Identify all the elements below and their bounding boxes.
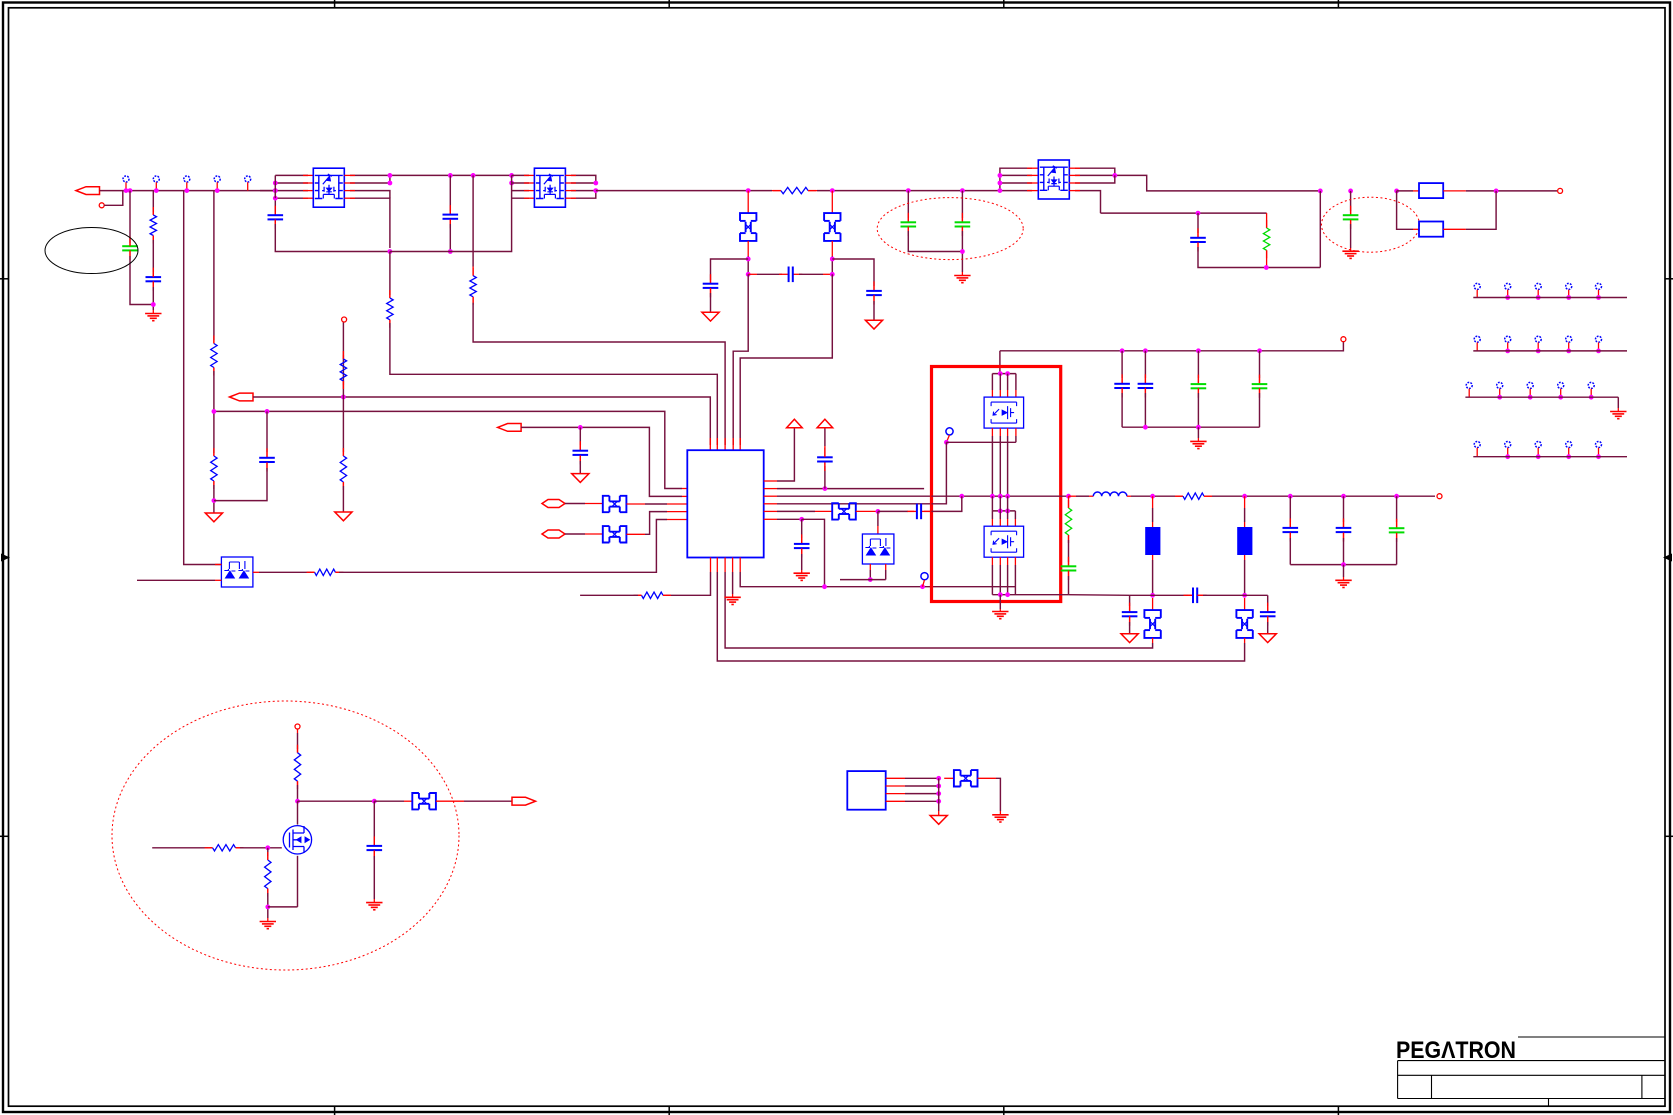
resistor R9 <box>213 453 215 456</box>
capacitor C15 (green) <box>1259 351 1261 378</box>
wire bus drop x184 <box>184 191 222 565</box>
wire R1 branch <box>152 191 154 212</box>
capacitor C22 series <box>1188 594 1193 596</box>
ground G3 (triangle) <box>865 320 882 329</box>
wire opto U3 left pins <box>1000 168 1032 190</box>
wire R12 to C21 <box>1068 540 1070 562</box>
wire U4 bottom pin5 (y586.7) <box>739 558 741 573</box>
wire gate from left <box>152 847 208 849</box>
connector pin row2-3 <box>1535 336 1541 342</box>
branch to C23 <box>1129 595 1131 606</box>
wire FB2 down to IC pin5 <box>740 274 832 445</box>
net oval label N2 <box>542 530 565 538</box>
photocoupler U2 <box>534 168 565 207</box>
wire R9 to junction <box>213 485 215 513</box>
wire Q3 source <box>297 856 299 907</box>
ground G7 <box>1197 438 1199 441</box>
wire y213 rail <box>1101 212 1267 214</box>
wire node C1 branch <box>129 191 131 243</box>
net arrow VIN (left) <box>76 187 100 195</box>
capacitor C20 <box>801 519 803 538</box>
capacitor C16 <box>266 411 268 452</box>
wire U5 pin4 <box>886 800 905 802</box>
wire opto U1 pin1 <box>275 174 308 176</box>
photocoupler U1 <box>313 168 344 207</box>
wire rail down into red box <box>999 351 1001 374</box>
wire VIN bus <box>100 190 276 192</box>
wire FB9 to ground <box>978 777 997 779</box>
wire U4 bottom pin4 to ground <box>732 558 734 573</box>
connector pin row3-4 <box>1558 382 1564 388</box>
wire bus drop x214 <box>213 191 215 340</box>
red dashed ellipse annotation B <box>1322 197 1420 252</box>
capacitor C4 <box>449 175 451 211</box>
wire FB1 to junctions <box>747 241 749 256</box>
wire circle to Q1 pin4 <box>946 441 1016 443</box>
wire rail y427 <box>521 427 682 496</box>
red dashed ellipse annotation A <box>877 198 1023 260</box>
ground G15 (triangle) <box>1259 634 1276 643</box>
wire U5 pin2 <box>886 785 905 787</box>
connector pin row4-4 <box>1566 442 1572 448</box>
wire top bus to opto U2 <box>450 174 511 176</box>
wire pins common <box>938 778 940 811</box>
wire connector row1 <box>1473 297 1627 299</box>
capacitor C24 <box>1267 606 1269 612</box>
wire R13 to output <box>1212 495 1290 497</box>
wire cap-row bottom <box>1122 426 1259 428</box>
wire to FB8 <box>374 800 404 802</box>
wire R16 to junction <box>267 893 269 918</box>
ground G19 (triangle) <box>938 811 940 816</box>
MOSFET block Q1 <box>984 397 1024 428</box>
wire bus to opto U3 <box>817 190 1000 192</box>
ferrite bead FB2 (vertical) <box>831 191 833 214</box>
wire x473 chain <box>472 175 474 266</box>
ferrite bead FB7 (vertical) <box>1244 598 1246 610</box>
capacitor C10 <box>1197 213 1199 233</box>
junction dots on VIN bus <box>124 188 129 193</box>
capacitor C11 (green) <box>1350 191 1352 211</box>
ground G2 (triangle) <box>702 312 719 321</box>
connector pin P1-5 <box>245 176 251 182</box>
ground G18 <box>373 899 375 903</box>
resistor R8 on x343 upper <box>342 355 344 359</box>
wire branch to C7 <box>832 259 874 286</box>
pin circle (blue) <box>921 573 928 580</box>
capacitor C26 <box>1343 496 1345 522</box>
capacitor C13 <box>1144 351 1146 378</box>
resistor R16 <box>267 848 269 856</box>
ferrite bead FB5 <box>832 503 856 519</box>
cap (polarized) CP1 <box>1152 496 1154 508</box>
wire y594.7 out of box <box>1068 594 1129 597</box>
wire connector row3 <box>1465 396 1618 398</box>
net arrow A3 (left) <box>498 424 521 432</box>
resistor R10 <box>311 571 315 573</box>
wire C2 to junction <box>152 287 154 310</box>
IC U4 top pin3 stub <box>724 438 726 450</box>
ferrite bead FB8 <box>412 793 436 809</box>
ground G4 <box>961 272 963 276</box>
capacitor C23 <box>1129 606 1131 612</box>
wire U4 bottom pin1 + resistor R11 <box>710 558 712 573</box>
net circle output (red) <box>1437 494 1442 499</box>
wire main bus y190.6 <box>596 190 772 192</box>
pin stub P1-1 <box>125 182 127 190</box>
wire D2 bottom pins <box>869 564 871 570</box>
branch to C24 <box>1267 595 1269 606</box>
wire D1 out to resistor R10 <box>253 571 259 573</box>
wire U1 right pin1 <box>350 174 450 176</box>
wire N2 to FB4 <box>565 533 585 535</box>
ground G11 <box>801 570 803 573</box>
pin stub P1-2 <box>155 182 157 190</box>
wire x214 chain <box>213 452 215 453</box>
resistor R15 <box>208 847 213 849</box>
power arrow PWR2 <box>817 419 833 428</box>
net circle x343 <box>342 317 347 322</box>
wire bracket top y373.6 <box>992 373 1016 375</box>
capacitor C8 (green) <box>907 191 909 218</box>
wire x390 chain down <box>388 249 393 254</box>
svg-text:PEGΛTRON: PEGΛTRON <box>1396 1037 1516 1064</box>
wire R1 to C2 <box>152 240 154 272</box>
junctions U1 right <box>389 175 391 183</box>
wire FB7 to rail y661 <box>1244 643 1246 648</box>
wire power rail y496 in box <box>932 495 1069 497</box>
wire U1 loop bottom <box>275 224 390 252</box>
wire U3 right pin2 <box>1075 175 1320 191</box>
ground G6 <box>1617 408 1619 412</box>
wire R14 to junction <box>297 785 299 801</box>
connector pin row1-3 <box>1535 283 1541 289</box>
resistor R5 (green) <box>1266 213 1268 228</box>
cap (polarized) CP2 <box>1244 496 1246 508</box>
black ellipse annotation <box>45 228 138 274</box>
capacitor C28 <box>373 840 375 846</box>
wire caps bottom rail <box>1290 564 1396 566</box>
wire to ground G16 <box>1343 565 1345 577</box>
resistor R13 series <box>1175 495 1183 497</box>
connector pin row4-1 <box>1474 442 1480 448</box>
net arrow A2 (left) <box>230 393 254 401</box>
connector pin row2-4 <box>1566 336 1572 342</box>
wire C16 bottom <box>214 468 267 501</box>
red dashed ellipse annotation C <box>112 701 459 970</box>
connector pin row3-1 <box>1466 382 1472 388</box>
wire F1 to junction <box>1443 190 1466 192</box>
wire to ground G7 <box>1197 427 1199 438</box>
ground G9 (triangle) <box>205 513 222 522</box>
wire rail y411 <box>214 411 682 488</box>
capacitor C1 (green) <box>129 237 131 247</box>
IC U4 top pin2 stub <box>716 438 718 450</box>
capacitor C9 (green) <box>961 191 963 218</box>
ground G16 <box>1343 577 1345 580</box>
wire D1 pin1 <box>215 564 221 566</box>
wire junction to FB9 <box>944 777 954 779</box>
capacitor C14 (green) <box>1197 351 1199 378</box>
wire D2 gnd rail <box>840 579 886 581</box>
wire drain node <box>298 800 375 802</box>
capacitor C6 series <box>748 273 757 275</box>
wire D1 pin2 from left <box>137 579 215 581</box>
wires into MOSFET Q1 top <box>991 374 993 390</box>
wire U1 right pin2 <box>350 182 390 184</box>
wire bus to F2 <box>1397 191 1413 229</box>
power arrow PWR1 <box>787 419 803 428</box>
wire U5 pin3 <box>886 793 905 795</box>
net circle (red) top <box>1341 337 1346 342</box>
wires from Q1 bottom <box>991 428 993 436</box>
test point TP1 (red circle) <box>99 203 104 208</box>
wire connector row4 <box>1473 456 1627 458</box>
capacitor C3 on U1 loop <box>274 212 276 215</box>
ground G12 <box>732 594 734 597</box>
wire FB8 to arrow <box>436 800 464 802</box>
wire rail y397 <box>253 397 710 445</box>
capacitor C5 <box>710 280 712 284</box>
wire U2 right pin2 <box>571 182 596 184</box>
wire FB5 to junction <box>856 510 878 512</box>
wire rail y496 to inductor <box>1069 495 1077 497</box>
connector pin row2-2 <box>1505 336 1511 342</box>
wires into MOSFET Q2 top <box>991 496 993 511</box>
net circle (red) <box>1558 188 1563 193</box>
capacitor C17 <box>579 427 581 445</box>
wire U3 right pin3 <box>1075 175 1115 183</box>
wire x1320 drop <box>1319 191 1321 268</box>
junctions opto U1 left <box>273 181 278 186</box>
wire to ground G13 <box>999 595 1001 609</box>
wire bus drop x275 to opto loop <box>274 191 276 212</box>
wire source to junction <box>268 906 298 908</box>
wire U4 right pin2 <box>764 488 777 490</box>
wire Q3 drain <box>297 801 299 824</box>
ground G17 <box>267 918 269 922</box>
wire to R14 <box>297 729 299 733</box>
connector pin row4-2 <box>1505 442 1511 448</box>
connector pin row1-4 <box>1566 283 1572 289</box>
capacitor C27 (green) <box>1396 496 1398 522</box>
net oval label N1 <box>542 500 565 508</box>
ferrite bead FB9 <box>954 770 978 786</box>
fuse F1 (blue box) <box>1419 183 1443 198</box>
wire U1 right pin3 <box>350 191 390 199</box>
wire C1 bottom to GND net <box>130 256 153 305</box>
connector pin row4-3 <box>1535 442 1541 448</box>
wire F2 to junction <box>1443 228 1466 230</box>
connector pin P1-1 <box>123 176 129 182</box>
wire C21 to bracket <box>1068 576 1070 595</box>
resistor R14 <box>297 749 299 753</box>
capacitor C25 <box>1289 496 1291 522</box>
wire R2 to rail y374 <box>390 323 717 445</box>
wire U4 right pin4 <box>764 503 777 505</box>
net circle Q3 drain top (red) <box>295 724 300 729</box>
ferrite bead FB4 <box>603 526 627 542</box>
wire U5 pin1 <box>886 777 905 779</box>
resistor R1 <box>152 212 154 215</box>
ferrite bead FB3 <box>603 496 627 512</box>
connector pin P1-2 <box>153 176 159 182</box>
diode pack D1 <box>221 557 253 587</box>
IC U4 (controller) <box>687 450 763 557</box>
wire TVS D2 branch <box>877 511 879 526</box>
connector pin row3-5 <box>1588 382 1594 388</box>
wire U4 right pin3 (long to inductor) <box>764 495 777 497</box>
resistor R4 series <box>772 190 781 192</box>
photocoupler U3 <box>1038 160 1069 199</box>
wire opto left vertical <box>274 175 276 198</box>
capacitor C2 <box>152 268 154 278</box>
pin stub P1-3 <box>186 182 188 190</box>
connector pin row4-5 <box>1596 442 1602 448</box>
wire R3 to rail y342 <box>473 303 725 445</box>
inductor L1 <box>1093 492 1127 496</box>
wire U3 right pin4 <box>1075 191 1101 214</box>
ferrite bead FB6 (vertical) <box>1152 598 1154 610</box>
connector pin row1-5 <box>1596 283 1602 289</box>
pin stub P1-4 <box>216 182 218 190</box>
wire branch to C5 <box>711 259 749 280</box>
ground G8 (triangle) <box>335 512 352 521</box>
wire vcc rail y350.8 <box>1000 342 1344 351</box>
MOSFET Q3 (circle) <box>283 826 311 854</box>
wire y511 entry to rail <box>932 496 962 511</box>
connector pin row2-1 <box>1474 336 1480 342</box>
ground G20 <box>999 811 1001 815</box>
ground G14 (triangle) <box>1121 634 1138 643</box>
wire loop bottom to opto U2 <box>390 175 512 251</box>
highlight rectangle (thick red) <box>932 367 1061 602</box>
wire opto U1 pin2 <box>275 182 308 184</box>
wire U1 right pin4 <box>350 198 390 248</box>
wire FB3 to IC <box>626 503 645 505</box>
wire FB4 to IC pin <box>626 533 645 535</box>
wire opto U1 pin4 <box>275 197 308 199</box>
wire x343 down <box>342 397 344 452</box>
wire drain node to C28 <box>373 801 375 840</box>
wire output rail <box>1290 495 1435 497</box>
connector pin row1-2 <box>1505 283 1511 289</box>
resistor R7 <box>342 452 344 456</box>
wire C28 to ground <box>373 856 375 899</box>
wire right bus junctions <box>1318 189 1323 194</box>
wire x343 top <box>342 322 344 397</box>
ferrite bead FB1 (vertical) <box>747 191 749 214</box>
capacitor C21 (green) <box>1068 562 1070 566</box>
wire U4 bottom pin2 (rail y661) <box>716 558 718 573</box>
capacitor C18 on PWR2 <box>824 466 826 489</box>
resistor R3 <box>472 267 474 276</box>
wire connector row2 <box>1473 350 1627 352</box>
pin stub P1-5 <box>247 182 249 190</box>
ground G5 <box>1350 248 1352 251</box>
wire opto U2 pin wires <box>512 182 529 184</box>
fuse F2 (blue box) <box>1419 222 1443 237</box>
wires from Q2 bottom <box>991 557 993 565</box>
wire U2 right pin4 <box>571 191 596 199</box>
wire U4 right pin6 <box>764 518 777 520</box>
wire U3 right pin1 <box>1075 168 1115 175</box>
wire FB1 down to IC pin4 <box>733 274 748 445</box>
wire C7 to ground <box>873 301 875 320</box>
capacitor C19 series <box>878 510 908 512</box>
wire U2 right pin1 <box>571 175 596 183</box>
wire U4 bottom pin3 (rail y648) <box>724 558 726 573</box>
connector pin row2-5 <box>1596 336 1602 342</box>
connector pin P1-3 <box>184 176 190 182</box>
title block lines <box>1398 1037 1665 1106</box>
capacitor C12 <box>1121 351 1123 378</box>
wire row3 to ground <box>1617 397 1619 408</box>
wire opto U1 pin3 <box>260 190 308 192</box>
ground G13 <box>999 609 1001 612</box>
pin circle Q1 gate (blue) <box>946 428 953 435</box>
resistor R12 (green) <box>1068 496 1070 508</box>
IC U5 (regulator) <box>847 771 885 810</box>
ground G1 <box>152 310 154 314</box>
wire bracket y594.7 <box>992 594 1068 596</box>
wire bracket y510.9 <box>992 510 1015 512</box>
resistor R2 <box>389 295 391 298</box>
connector pin P1-4 <box>214 176 220 182</box>
wire TP1 to bus <box>104 191 123 206</box>
wire U2 right pin3 <box>571 190 596 192</box>
MOSFET block Q2 <box>984 526 1024 557</box>
wire U4 right pin5 to FB5 <box>764 510 777 512</box>
wire R15 to gate <box>240 847 282 849</box>
wire R10 to IC pin (long) <box>339 520 667 573</box>
net arrow A4 (right) <box>512 797 536 805</box>
connector pin row1-1 <box>1474 283 1480 289</box>
wire N1 to FB3 <box>565 503 585 505</box>
ground G10 (triangle) <box>572 474 589 483</box>
resistor R17 <box>213 340 215 344</box>
wire L1 to junction <box>1127 495 1131 497</box>
wire gate drop to y503.8 <box>932 442 947 504</box>
wire C4 bottom <box>449 224 451 252</box>
wire bus to F1 <box>1397 190 1413 192</box>
wire R7 to ground <box>342 486 344 512</box>
wire y595.3 rail <box>1130 594 1188 596</box>
connector pin row3-3 <box>1527 382 1533 388</box>
connector pin row3-2 <box>1497 382 1503 388</box>
capacitor C7 <box>873 286 875 291</box>
wire U4 right pin1 to VCC arrow <box>764 480 777 482</box>
diode pack D2 (TVS) <box>862 534 894 564</box>
wire C5 to ground <box>710 293 712 312</box>
